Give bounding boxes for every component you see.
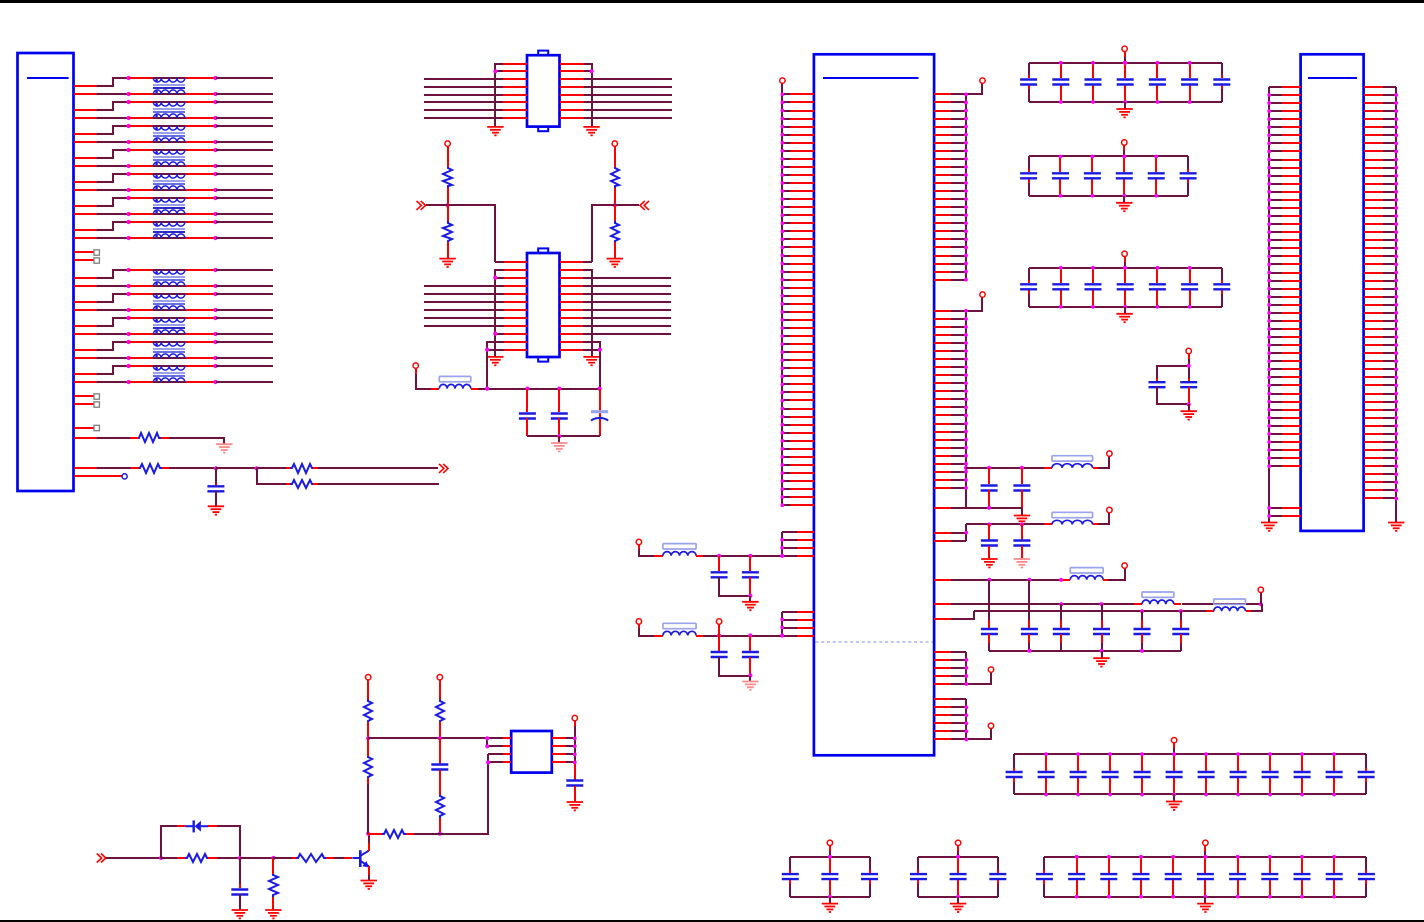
junction CB1.5 top (1156, 61, 1160, 65)
capacitor bank CB1 bottom rail (1029, 101, 1222, 103)
ground (1166, 802, 1182, 810)
capacitor CB6.3 (989, 857, 1006, 897)
capacitor bottom row 3 (1053, 604, 1070, 651)
junction CB2.2 top (1059, 155, 1063, 159)
ground (1014, 559, 1030, 567)
U3 left rail B junctions (780, 538, 784, 558)
junction CB3.3 top (1091, 266, 1095, 270)
junction T11 right bottom (213, 356, 217, 360)
junction net2 c2 (1020, 522, 1024, 526)
transformer T9 (153, 294, 185, 310)
junction CB4.4 bottom (1108, 793, 1112, 797)
wire T11 outputs (216, 342, 273, 358)
U3 right rail B junctions (964, 309, 968, 490)
junction rail right (598, 387, 602, 391)
ground (1116, 314, 1132, 322)
capacitor CB4.3 (1070, 754, 1087, 794)
junction CB7.8 top (1268, 855, 1272, 859)
wire col2 to U4 pin4 col (440, 754, 488, 834)
junction cap2 B (748, 633, 752, 637)
wire divider right (614, 188, 616, 205)
wire rail to ground (1101, 651, 1103, 658)
capacitor bank CB3 bottom rail (1029, 306, 1222, 308)
junction CB4.10 top (1300, 752, 1304, 756)
wire into T10 (129, 318, 216, 334)
transformer T3 (153, 126, 185, 142)
U3 right pin group 6 pins (934, 699, 966, 739)
wire J1 pin to T11 bottom (74, 357, 129, 359)
wire FBB to U3 (696, 635, 782, 637)
capacitor bank CB4 top rail (1014, 753, 1366, 755)
resistor R10 (436, 699, 444, 722)
junction cap1 B (717, 633, 721, 637)
capacitor C1 branch wire (215, 468, 217, 486)
junction bank CB1 power (1123, 61, 1127, 65)
U3 left rail C junctions (780, 618, 784, 638)
junction divider left (446, 203, 450, 207)
resistor R5 (185, 854, 208, 862)
power port bead circuit B (636, 619, 663, 636)
off-page arrow input (97, 854, 106, 863)
U3 left pin group B pins (782, 532, 814, 556)
capacitor C3 (551, 389, 568, 436)
wire J1 pin to T1 bottom (74, 93, 129, 95)
ground (607, 259, 623, 267)
junction T10 right top (213, 316, 217, 320)
junction pin12 right (598, 348, 602, 352)
junction net3 c (1059, 578, 1063, 582)
junction CB4.6 bottom (1172, 793, 1176, 797)
ground (265, 910, 281, 918)
junction CB1.6 top (1188, 61, 1192, 65)
power port bead circuit A (636, 539, 663, 556)
wire to ground (558, 436, 560, 443)
wire bank CB1 ground (1124, 102, 1126, 109)
wire input (106, 857, 161, 859)
wire junction to junction (216, 467, 257, 469)
junction CB1.3 bottom (1091, 100, 1095, 104)
ferrite bead FB1 (439, 376, 471, 381)
junction CB4.3 bottom (1076, 793, 1080, 797)
wire R1 to ground (161, 438, 224, 444)
junction T11 left bottom (127, 356, 131, 360)
junction CB2.2 bottom (1059, 194, 1063, 198)
junction CB4.8 top (1236, 752, 1240, 756)
IC U2 left pins (504, 262, 527, 350)
U4 right rail junctions (573, 737, 577, 765)
capacitor bank CB7 top rail (1044, 856, 1366, 858)
junction pin3 (493, 276, 497, 280)
power port group 5 (988, 667, 993, 672)
IC U2 right pins (560, 262, 583, 350)
ground (567, 802, 583, 810)
J2 left rail (1268, 87, 1270, 522)
junction CB1.4 top (1123, 61, 1127, 65)
wire J1 pin to T2 bottom (74, 117, 129, 119)
ground (1261, 523, 1277, 531)
resistor R pull-down left (447, 205, 449, 221)
junction rail d (1140, 649, 1144, 653)
wire U2 left pins 11-12 (487, 342, 504, 389)
capacitor net1 c2 (1013, 468, 1030, 508)
junction T7 left top (127, 220, 131, 224)
U3 left pin group C pins (782, 612, 814, 636)
resistor R pull-up right (611, 167, 619, 188)
capacitor net1 c1 (981, 468, 998, 508)
junction rail FB1 (485, 387, 489, 391)
wire to resistor R3 (257, 467, 290, 469)
junction CB3.2 bottom (1059, 305, 1063, 309)
resistor R pull-up left (443, 167, 452, 188)
junction T10 right bottom (213, 332, 217, 336)
capacitor CB5.3 (861, 857, 878, 897)
capacitor CB1.6 (1181, 63, 1198, 102)
junction T5 left bottom (127, 188, 131, 192)
transformer T12 (153, 366, 185, 382)
junction bottom net1 (987, 506, 991, 510)
bottom cap rail (989, 650, 1181, 652)
resistor R2 (139, 464, 162, 473)
power port divider left (445, 141, 450, 167)
wire cap bottom rail (527, 435, 600, 437)
capacitor CB3.1 (1020, 268, 1037, 307)
capacitor CB1.1 (1020, 63, 1037, 102)
wire to ground left (447, 242, 449, 259)
IC U3 (814, 54, 934, 755)
power port bank CB1 (1122, 46, 1127, 63)
junction CB7.3 top (1107, 855, 1111, 859)
junction T1 right top (213, 76, 217, 80)
junction node E (271, 856, 275, 860)
off-page arrow right (439, 464, 448, 473)
no-connect pin J1 stub 2 (74, 258, 99, 263)
junction T11 left top (127, 340, 131, 344)
junction T6 left top (127, 196, 131, 200)
capacitor CB3.2 (1052, 268, 1069, 307)
junction CB4.9 bottom (1268, 793, 1272, 797)
wire FB6 out (1246, 604, 1262, 611)
U3 right rail A junctions (964, 93, 968, 282)
wire R12 to col2 (406, 833, 440, 835)
capacitor CB2.6 (1180, 156, 1197, 196)
junction bank CB6 power (956, 855, 960, 859)
wire J1 pin to T7 top (74, 222, 129, 230)
J2 right rail (1395, 87, 1397, 522)
ferrite bead FB6 (1214, 599, 1246, 604)
junction T7 right top (213, 220, 217, 224)
junction net1 c2 (1020, 466, 1024, 470)
junction net4 end (1259, 602, 1263, 606)
capacitor bead circuit A c1 (711, 556, 750, 596)
junction bank CB3 power (1123, 266, 1127, 270)
wire J1 pin to T11 top (74, 342, 129, 350)
resistor R pull-down right (614, 205, 616, 221)
wire U2 right pin1 (583, 261, 592, 263)
junction CB2.5 top (1154, 155, 1158, 159)
wire J1 pin to T7 bottom (74, 237, 129, 239)
wire R9 to collector (367, 778, 369, 834)
junction T12 left bottom (127, 380, 131, 384)
junction node C (214, 466, 218, 470)
junction T5 right bottom (213, 188, 217, 192)
capacitor CB3.3 (1085, 268, 1102, 307)
wire bank CB2 ground (1123, 196, 1125, 203)
junction T2 left top (127, 100, 131, 104)
transformer T7 (153, 222, 185, 238)
junction diode out (238, 856, 242, 860)
U3 right net2 pins (934, 533, 966, 541)
wire T9 outputs (216, 294, 273, 310)
U3 right net3 pin (934, 579, 966, 581)
resistor R7 (296, 854, 326, 862)
junction divider right (613, 203, 617, 207)
wire net1 (966, 467, 1052, 469)
wire to ground A (749, 596, 751, 602)
wire into T4 (129, 150, 216, 166)
junction T12 left top (127, 364, 131, 368)
ground (216, 444, 232, 452)
capacitor bank CB5 top rail (790, 856, 870, 858)
connector J1 (18, 53, 74, 491)
junction CB7.10 top (1332, 855, 1336, 859)
junction T4 right top (213, 148, 217, 152)
wire U4 pin3/4 net (488, 754, 503, 762)
junction rail A (780, 554, 784, 558)
capacitor CB7.4 (1133, 857, 1150, 897)
wire into T7 (129, 222, 216, 238)
wire R4 output (313, 483, 439, 485)
wire to off-page left (426, 204, 448, 206)
junction C3 (557, 387, 561, 391)
wire into T5 (129, 174, 216, 190)
junction net4 c3 (1059, 602, 1063, 606)
junction T10 left bottom (127, 332, 131, 336)
wire bank CB4 ground (1173, 794, 1175, 802)
power port net1 (1107, 451, 1112, 456)
power port U3 right A (980, 78, 985, 83)
wire J1 pin to T1 top (74, 78, 129, 86)
junction 2cap bottom (1187, 402, 1191, 406)
wire J1 pin to T2 top (74, 102, 129, 110)
junction U4 pin4 (486, 760, 490, 764)
capacitor CB4.6 (1166, 754, 1183, 794)
capacitor CB7.5 (1165, 857, 1182, 897)
junction T8 right bottom (213, 284, 217, 288)
power port col2 (437, 675, 442, 700)
junction T8 left top (127, 268, 131, 272)
wire T3 outputs (216, 126, 273, 142)
wire to junction 2 (240, 857, 273, 859)
capacitor CB1.2 (1052, 63, 1069, 102)
junction net5 c6 (1179, 609, 1183, 613)
junction net2 pin2 (964, 531, 968, 535)
IC U1 left pins (503, 64, 527, 118)
junction T4 left top (127, 148, 131, 152)
capacitor CB7.3 (1100, 857, 1117, 897)
capacitor net2 c1 (981, 524, 998, 559)
wire U1 left pins 1-2 to ground (495, 64, 503, 126)
wire net2 (966, 523, 1052, 525)
wire into T11 (129, 342, 216, 358)
wire junction to U2 pin1 col (448, 205, 495, 262)
no-connect pin J1 stub 1 (74, 250, 99, 255)
junction CB1.2 top (1059, 61, 1063, 65)
junction U3 rail net1 (964, 466, 968, 470)
J2 right pins (1364, 87, 1396, 498)
wire bank CB5 ground (829, 897, 831, 904)
ferrite bead FB3 (1052, 512, 1093, 517)
wire T7 outputs (216, 222, 273, 238)
junction T2 left bottom (127, 116, 131, 120)
capacitor C2 (519, 389, 536, 436)
capacitor CB4.9 (1262, 754, 1279, 794)
U2 right bus wires (583, 278, 671, 334)
capacitor CB1.7 (1213, 63, 1230, 102)
wire U4 right rail (566, 722, 575, 780)
junction CB1.6 bottom (1188, 100, 1192, 104)
capacitor CB1.3 (1085, 63, 1102, 102)
junction 2cap (1187, 364, 1191, 368)
capacitor bank CB6 bottom rail (918, 896, 998, 898)
ground (1181, 411, 1197, 419)
wire J1 pin to T12 top (74, 366, 129, 374)
junction net3 a (987, 578, 991, 582)
wire collector (368, 834, 370, 851)
no-connect pin J1 stub 5 (74, 425, 99, 430)
capacitor CB3.5 (1149, 268, 1166, 307)
capacitor bead circuit A c2 (742, 556, 759, 596)
capacitor 2cap.1 (1149, 378, 1190, 404)
power port U3 left (780, 78, 785, 83)
capacitor CB7.11 (1358, 857, 1375, 897)
power port bank CB5 (827, 840, 832, 857)
capacitor CB7.7 (1229, 857, 1246, 897)
junction CB4.11 bottom (1332, 793, 1336, 797)
J2 left pins (1269, 87, 1301, 516)
U3 net2 rail (965, 524, 967, 541)
capacitor CB2.1 (1020, 156, 1037, 196)
wire U1 right pins 1-2 to ground (584, 64, 592, 126)
wire J1 pin to T6 top (74, 198, 129, 206)
wire R7 to base (326, 857, 352, 859)
junction CB3.4 top (1123, 266, 1127, 270)
junction CB2.3 top (1091, 155, 1095, 159)
junction CB4.10 bottom (1300, 793, 1304, 797)
junction T9 left top (127, 292, 131, 296)
junction CB6.2 bottom (956, 895, 960, 899)
transformer T4 (153, 150, 185, 166)
wire J1 pin to T9 top (74, 294, 129, 302)
junction bank CB4 power (1172, 752, 1176, 756)
off-page arrow (640, 201, 649, 210)
junction T12 right top (213, 364, 217, 368)
junction CB1.4 bottom (1123, 100, 1127, 104)
wire J1 to R2 (74, 467, 139, 469)
transformer T1 (153, 78, 185, 94)
wire net4 end to power (1260, 592, 1262, 604)
resistor R4 (290, 480, 313, 488)
junction T5 left top (127, 172, 131, 176)
junction CB4.11 top (1332, 752, 1336, 756)
resistor R8 (364, 699, 372, 722)
U3 left rail C (781, 612, 783, 636)
resistor R12 (382, 830, 406, 838)
junction CB1.5 bottom (1156, 100, 1160, 104)
capacitor C7 (566, 780, 583, 802)
capacitor CB4.12 (1358, 754, 1375, 794)
wire T8 outputs (216, 270, 273, 286)
capacitor bottom row 1 (981, 580, 998, 651)
junction CB2.4 top (1122, 155, 1126, 159)
junction CB7.6 top (1204, 855, 1208, 859)
junction CB3.6 bottom (1188, 305, 1192, 309)
junction T1 right bottom (213, 92, 217, 96)
wire into T6 (129, 198, 216, 214)
capacitor bank CB6 top rail (918, 856, 998, 858)
IC U4 (511, 731, 552, 773)
wire to off-page right (615, 204, 639, 206)
diode D1 (185, 820, 208, 832)
junction net4 c4 (1099, 602, 1103, 606)
junction CB4.2 bottom (1044, 793, 1048, 797)
junction T8 left bottom (127, 284, 131, 288)
resistor R1 (138, 433, 161, 442)
junction CB7.5 bottom (1171, 895, 1175, 899)
wire 2cap ground (1188, 404, 1190, 411)
U3 left rail B (781, 532, 783, 556)
junction CB7.9 top (1300, 855, 1304, 859)
wire J1 pin to T8 bottom (74, 285, 129, 287)
J2 right rail junctions (1394, 93, 1398, 500)
junction T5 right top (213, 172, 217, 176)
ground (1197, 904, 1213, 912)
junction CB2.5 bottom (1154, 194, 1158, 198)
power port group 6 (988, 723, 993, 728)
capacitor bead circuit B c2 (742, 636, 759, 676)
resistor R11 (436, 795, 444, 818)
wire FB4 to power (1103, 568, 1125, 580)
junction CB7.2 bottom (1075, 895, 1079, 899)
wire J1 pin to T6 bottom (74, 213, 129, 215)
wire R11 down (439, 818, 441, 834)
junction T9 left bottom (127, 308, 131, 312)
junction CB4.3 top (1076, 752, 1080, 756)
ground (1093, 658, 1109, 666)
wire T12 outputs (216, 366, 273, 382)
U3 left rail A (781, 83, 783, 505)
junction pin12 (485, 348, 489, 352)
ferrite bead FB4 (1070, 568, 1103, 573)
power port net2 (1107, 507, 1112, 512)
U3 right rail 5 (966, 652, 991, 684)
junction CB5.2 top (828, 855, 832, 859)
polarized capacitor C4 (591, 389, 608, 436)
IC U2 (527, 248, 560, 361)
capacitor CB7.2 (1068, 857, 1085, 897)
testpoint pin wire (74, 475, 122, 477)
junction net3 b (1027, 578, 1031, 582)
capacitor CB5.2 (821, 857, 838, 897)
junction CB2.4 bottom (1122, 194, 1126, 198)
power port divider right (612, 141, 617, 167)
connector J2 (1301, 54, 1364, 531)
capacitor bank CB5 bottom rail (790, 896, 870, 898)
junction T3 right top (213, 124, 217, 128)
junction cap2 A (748, 554, 752, 558)
junction CB4.9 top (1268, 752, 1272, 756)
wire R2 to junction (162, 467, 216, 469)
junction node D (255, 466, 259, 470)
